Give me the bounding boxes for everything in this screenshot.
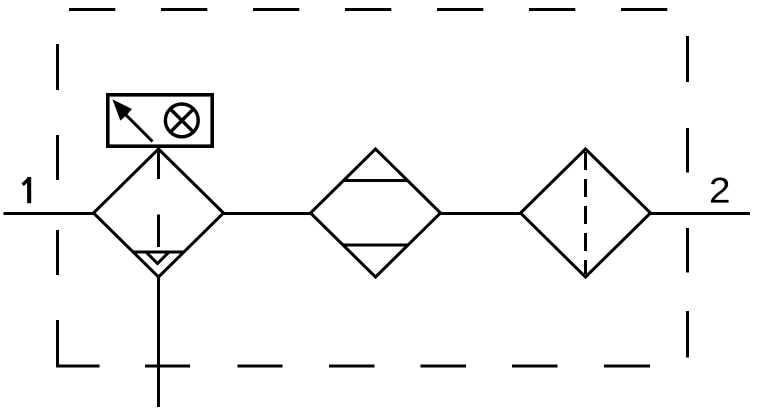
filter F1 dashed center line bbox=[157, 152, 160, 248]
dryer D1: diamond body bbox=[311, 149, 441, 277]
pressure gauge G1: circle bbox=[165, 104, 198, 137]
regulator arrow head bbox=[114, 101, 132, 120]
pressure regulator R1: body box bbox=[108, 95, 212, 146]
filter F1 separator chord bbox=[133, 251, 184, 254]
filter F1 with water separator: diamond body bbox=[94, 149, 224, 277]
drain wire bbox=[157, 277, 160, 407]
port label 1 bbox=[23, 177, 32, 203]
wire dryer to filter F2 bbox=[438, 212, 523, 215]
port label 2 bbox=[711, 177, 729, 202]
wire port 1 to filter F1 bbox=[4, 212, 96, 215]
enclosure top edge (dashed) bbox=[69, 8, 668, 11]
dryer lower chord bbox=[343, 244, 408, 247]
enclosure left edge (dashed) bbox=[56, 44, 59, 366]
wire F2 to port 2 bbox=[648, 212, 750, 215]
filter F1 separator chevron bbox=[146, 252, 169, 264]
regulator arrow shaft bbox=[123, 112, 153, 142]
enclosure right edge (dashed) bbox=[686, 36, 689, 358]
dryer upper chord bbox=[344, 179, 408, 182]
enclosure bottom edge (dashed) bbox=[56, 365, 650, 368]
filter F2 dashed center line bbox=[584, 152, 587, 274]
wire F1 to dryer bbox=[222, 212, 313, 215]
pressure gauge X mark bbox=[169, 108, 194, 133]
filter F2: diamond body bbox=[521, 149, 651, 277]
